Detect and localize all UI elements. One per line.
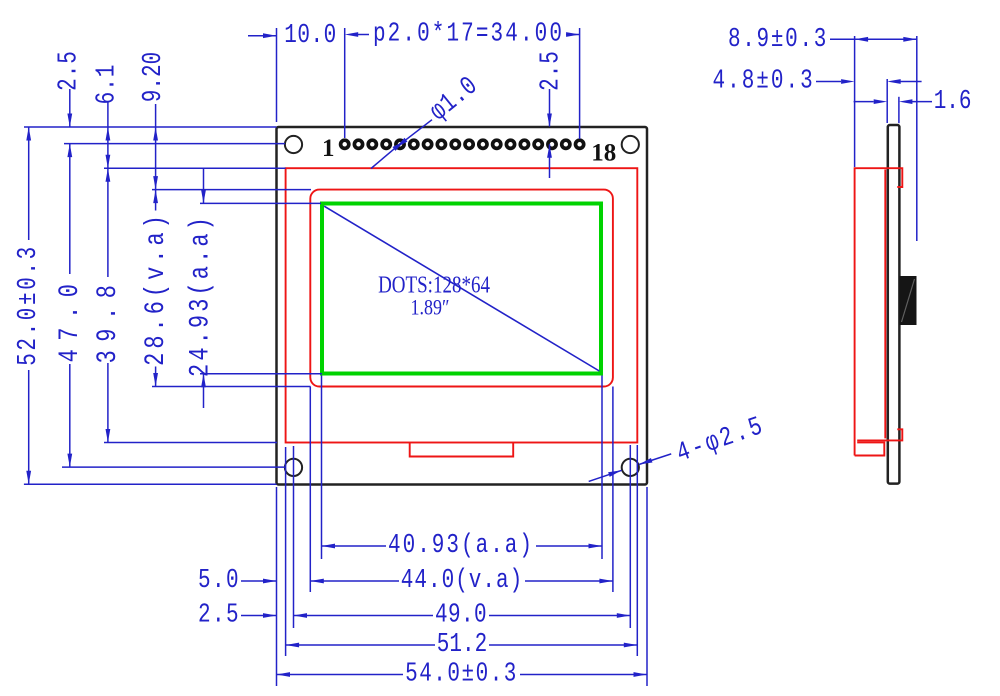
ext line hole center left down — [293, 446, 295, 628]
blue diagonal of active area — [324, 206, 599, 371]
svg-text:10.0: 10.0 — [284, 21, 336, 51]
side view red bezel outline — [855, 168, 903, 455]
svg-text:24.93(a.a): 24.93(a.a) — [184, 214, 216, 377]
ext line a.a bottom extended left — [200, 373, 322, 375]
ext line a.a right down — [601, 376, 603, 560]
dim 40.93(a.a) — [322, 544, 336, 549]
green active-area rect (40.93 x 24.93) — [322, 204, 601, 374]
ext line v.a right down — [612, 387, 614, 593]
svg-text:2.5: 2.5 — [198, 600, 240, 630]
dim 39.8 red bezel height — [106, 168, 111, 182]
svg-text:DOTS:128*64: DOTS:128*64 — [378, 271, 490, 298]
side view PCB board — [888, 125, 900, 484]
svg-text:54.0±0.3: 54.0±0.3 — [405, 659, 518, 689]
mounting hole top-right — [622, 136, 639, 153]
mounting hole top-left — [285, 136, 302, 153]
ext line pin18 center — [579, 28, 581, 139]
red bottom tab — [410, 443, 514, 457]
ext line red bezel right down — [636, 445, 638, 656]
ext line bottom hole center extended left — [62, 466, 285, 468]
ext line hole center right down — [629, 445, 631, 628]
ext line module right down — [646, 487, 648, 686]
dim 52.0±0.3 overall height — [28, 127, 30, 240]
dim 44.0(v.a) — [310, 579, 324, 584]
dim p2.0*17=34.00 (pin pitch) — [345, 32, 359, 37]
red bezel outer rect (51.2 x 39.8) — [286, 168, 638, 442]
red viewing-area rounded rect (44.0 x 28.6) — [310, 190, 613, 387]
svg-text:8.9±0.3: 8.9±0.3 — [728, 25, 828, 55]
side view red bottom clip — [857, 429, 902, 440]
module outline (front view PCB 54.0 x 52.0) — [277, 127, 648, 485]
svg-text:1: 1 — [322, 135, 335, 162]
side view connector block — [899, 276, 916, 325]
svg-text:2.5: 2.5 — [536, 50, 566, 91]
ext line red bezel left down — [285, 447, 287, 656]
svg-text:p2.0*17=34.00: p2.0*17=34.00 — [373, 19, 564, 49]
svg-text:9.20: 9.20 — [139, 52, 169, 102]
dim 51.2 — [286, 643, 300, 648]
ext line module top edge extended left — [24, 126, 277, 128]
dim 47.0 hole centers vertical — [67, 144, 72, 158]
svg-text:51.2: 51.2 — [437, 630, 487, 660]
ext line module left edge up to top dim — [276, 28, 278, 122]
svg-text:2.5: 2.5 — [54, 50, 84, 91]
ext line a.a top extended left — [200, 202, 321, 204]
svg-text:5.0: 5.0 — [198, 566, 240, 596]
ext line module left down — [276, 487, 278, 686]
ext line bezel front face up — [854, 36, 856, 167]
ext line pin1 center — [344, 28, 346, 138]
svg-text:4.8±0.3: 4.8±0.3 — [713, 66, 815, 96]
ext line hole/pin center extended left — [64, 143, 285, 145]
svg-text:47.0: 47.0 — [54, 276, 86, 363]
mounting hole bottom-left — [285, 459, 302, 476]
svg-text:39.8: 39.8 — [92, 277, 124, 364]
dim 24.93(a.a) active area height — [203, 168, 205, 203]
svg-text:40.93(a.a): 40.93(a.a) — [388, 531, 534, 561]
svg-text:6.1: 6.1 — [92, 64, 122, 105]
ext line v.a top extended left — [152, 189, 311, 191]
leader phi1.0 pin hole diameter — [371, 148, 395, 169]
svg-text:44.0(v.a): 44.0(v.a) — [401, 566, 523, 596]
ext line red bezel top extended left — [104, 167, 286, 169]
dim 49.0 — [294, 613, 308, 618]
svg-text:1.6: 1.6 — [934, 87, 972, 117]
ext line v.a bottom extended left — [152, 386, 311, 388]
pin row: 18 plated holes, pitch 2.0 — [341, 140, 584, 148]
leader 4-phi2.5 mounting holes — [589, 470, 622, 481]
svg-text:18: 18 — [591, 140, 616, 167]
svg-text:28.6(v.a): 28.6(v.a) — [139, 211, 171, 366]
ext line pcb front face up — [886, 79, 888, 123]
dim 10.0 (module edge to pin1) — [248, 35, 277, 37]
ext line connector back up — [916, 36, 918, 241]
svg-text:52.0±0.3: 52.0±0.3 — [14, 244, 44, 366]
ext line module bottom edge extended left — [24, 483, 277, 485]
dim 54.0±0.3 — [277, 672, 291, 677]
mounting hole bottom-right — [622, 459, 639, 476]
ext line a.a left down — [321, 376, 323, 560]
side view red bezel inner face — [884, 170, 886, 439]
ext line red bezel bottom extended left — [104, 442, 277, 444]
ext line pcb back face up — [898, 97, 900, 123]
svg-text:1.89″: 1.89″ — [411, 296, 450, 320]
svg-text:49.0: 49.0 — [435, 600, 487, 630]
dim 28.6(v.a) viewing area height — [153, 190, 158, 204]
side view red bezel foot — [855, 442, 885, 455]
ext line v.a left down — [309, 387, 311, 593]
dim 1.6 pcb thickness — [854, 101, 874, 103]
